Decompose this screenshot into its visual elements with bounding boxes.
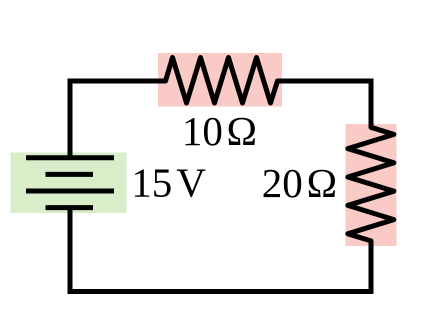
battery B1 plate 2 (short) xyxy=(46,172,94,177)
battery B1 plate 1 (long, top) xyxy=(26,155,114,160)
wire bottom segment xyxy=(68,289,374,294)
svg-text:Ω: Ω xyxy=(307,160,337,206)
svg-text:15: 15 xyxy=(131,160,172,206)
wire left-bottom from bottom-left corner to battery xyxy=(68,208,73,295)
battery B1 plate 4 (short, bottom) xyxy=(46,205,94,210)
wire right-bottom from R2 to bottom-right corner xyxy=(369,241,374,294)
svg-text:10: 10 xyxy=(182,108,223,154)
resistor R1 highlight box xyxy=(158,53,282,107)
battery highlight box xyxy=(11,153,127,214)
wire top-left segment xyxy=(68,79,166,84)
wire right-top from corner to R2 xyxy=(369,79,374,128)
svg-text:Ω: Ω xyxy=(227,108,257,154)
svg-text:20: 20 xyxy=(262,160,303,206)
svg-text:V: V xyxy=(176,160,206,206)
resistor R2 zigzag (20 ohm) xyxy=(348,127,394,241)
battery B1 plate 3 (long) xyxy=(26,189,114,194)
wire left-top from battery to top-left corner xyxy=(68,81,73,158)
resistor R2 highlight box xyxy=(346,124,397,246)
resistor R1 zigzag (10 ohm) xyxy=(166,58,278,104)
wire top-right segment xyxy=(278,79,374,84)
